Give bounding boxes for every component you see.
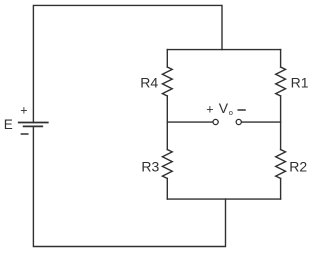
svg-text:R1: R1: [291, 75, 309, 91]
svg-text:+: +: [206, 102, 213, 116]
svg-text:R3: R3: [141, 158, 159, 174]
svg-text:R2: R2: [289, 159, 307, 175]
svg-text:o: o: [229, 108, 233, 117]
svg-text:R4: R4: [140, 75, 158, 91]
svg-text:E: E: [4, 117, 13, 132]
svg-text:V: V: [219, 100, 229, 116]
svg-text:+: +: [20, 104, 27, 118]
